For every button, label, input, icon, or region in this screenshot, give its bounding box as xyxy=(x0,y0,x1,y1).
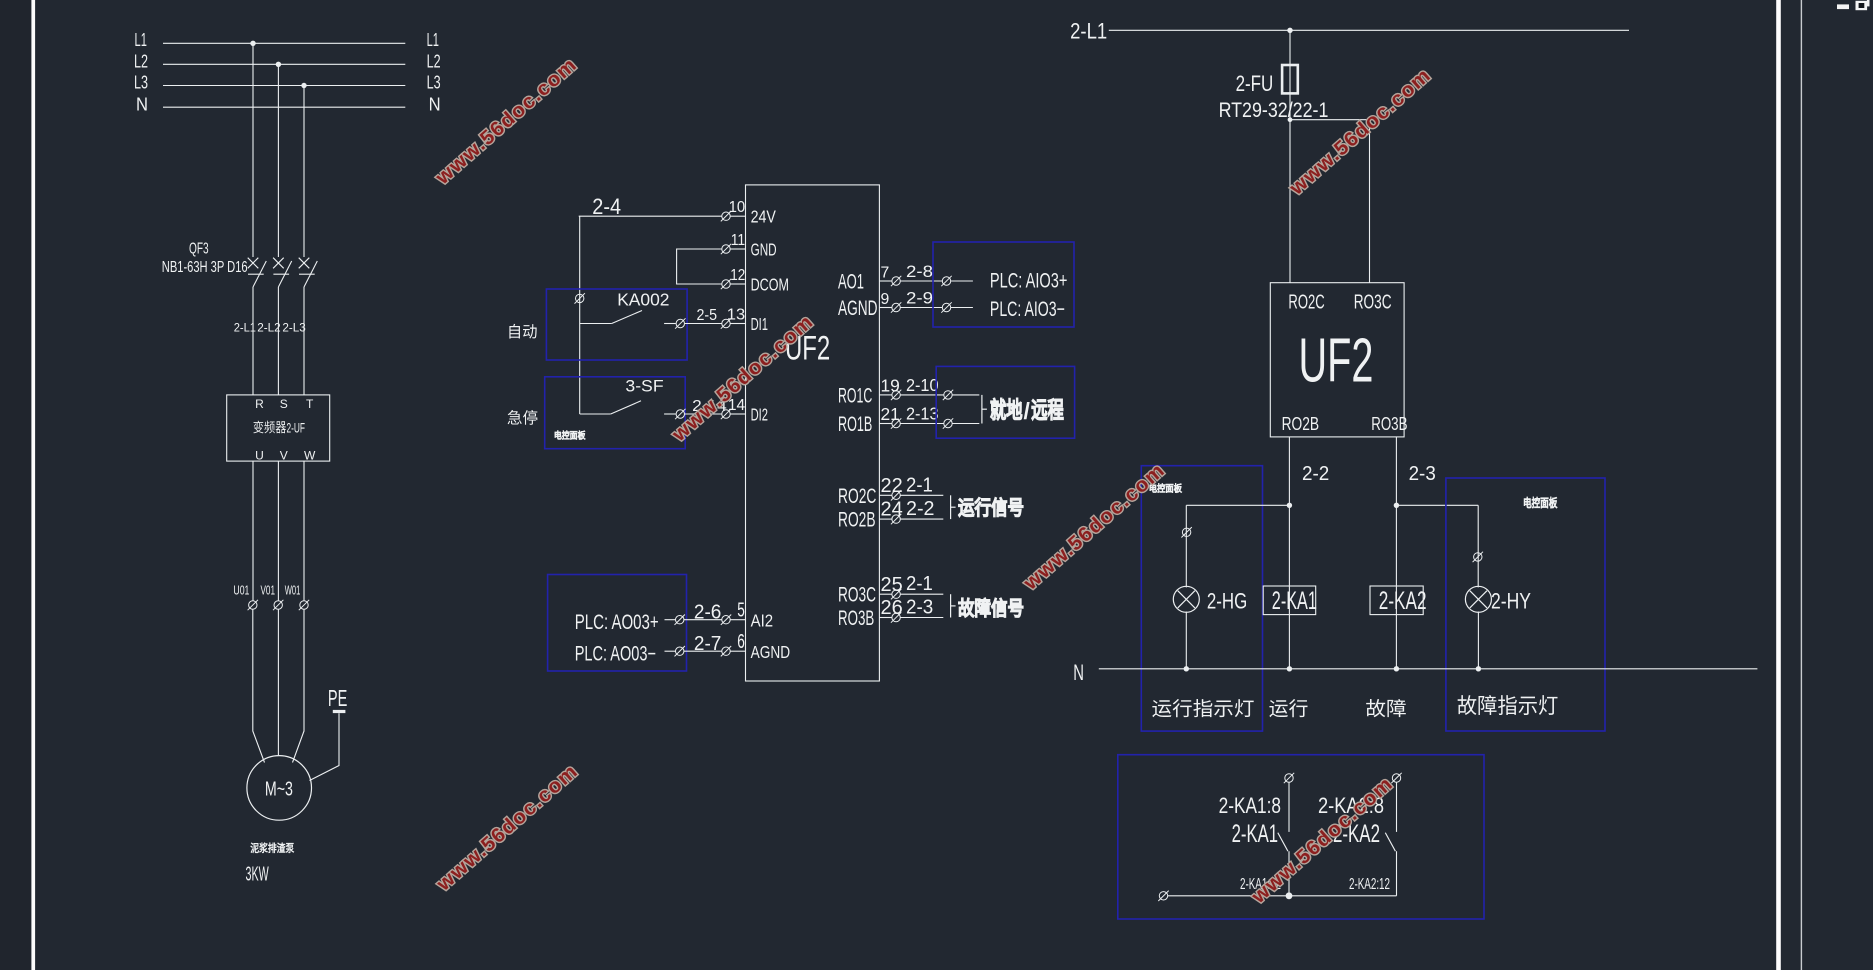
svg-text:2-UF: 2-UF xyxy=(287,421,306,437)
svg-text:L3: L3 xyxy=(427,73,441,93)
lamp 2-HG xyxy=(1173,586,1199,612)
svg-text:3-SF: 3-SF xyxy=(625,377,663,396)
svg-text:9: 9 xyxy=(881,291,890,308)
svg-text:RO2B: RO2B xyxy=(1282,413,1320,434)
pin 19 RO1C xyxy=(838,375,979,408)
breaker QF3 pole 3 xyxy=(299,258,318,395)
svg-text:RO3C: RO3C xyxy=(838,584,876,607)
inverter box 2-UF xyxy=(227,395,330,461)
terminal 2-KA1:8 xyxy=(1284,773,1294,783)
svg-text:2-KA1:8: 2-KA1:8 xyxy=(1219,793,1281,818)
svg-text:L1: L1 xyxy=(135,30,147,50)
wire W output xyxy=(303,461,305,601)
motor name 泥浆排渣泵 xyxy=(251,843,294,853)
relay contact KA002 switch xyxy=(580,311,676,324)
wire lamp 2-HG drop xyxy=(1185,505,1187,587)
svg-text:/: / xyxy=(1024,398,1031,424)
terminal lamp 2-HY xyxy=(1473,552,1483,562)
net brace 故障信号 xyxy=(951,594,956,617)
svg-text:2-HG: 2-HG xyxy=(1207,588,1247,613)
svg-text:11: 11 xyxy=(731,232,746,249)
watermark 5 xyxy=(432,760,583,896)
wire V output xyxy=(277,461,279,601)
svg-text:24V: 24V xyxy=(751,207,777,227)
svg-text:L3: L3 xyxy=(134,73,148,93)
svg-text:KA002: KA002 xyxy=(617,289,669,309)
wire AI2 xyxy=(684,619,722,621)
junction aux 2-KA1 xyxy=(1286,892,1293,899)
junction L3 tap xyxy=(301,83,306,88)
svg-text:RT29-32/22-1: RT29-32/22-1 xyxy=(1219,99,1329,122)
window minimize button xyxy=(1837,4,1849,9)
svg-text:V: V xyxy=(280,449,288,463)
svg-text:3KW: 3KW xyxy=(246,864,269,886)
wire bus 2-L1 xyxy=(1109,29,1629,31)
svg-text:L2: L2 xyxy=(427,51,441,71)
watermark 3 xyxy=(667,311,818,447)
wire bus L3 xyxy=(163,85,405,87)
label 电控面板 left xyxy=(1150,483,1182,492)
pin 14 DI2 xyxy=(721,397,768,425)
PLC analog output enclosure xyxy=(548,575,687,672)
svg-text:5: 5 xyxy=(737,600,745,622)
wire V to motor xyxy=(277,609,279,756)
pin 7 AO1 xyxy=(838,263,973,294)
svg-text:2-L1: 2-L1 xyxy=(1070,19,1107,44)
svg-text:NB1-63H 3P D16: NB1-63H 3P D16 xyxy=(162,259,248,276)
window restore button xyxy=(1856,0,1870,10)
junction N coil 2-KA2 xyxy=(1394,666,1399,671)
svg-text:N: N xyxy=(429,94,441,114)
svg-text:RO2C: RO2C xyxy=(838,485,876,508)
watermark 2 xyxy=(1285,64,1436,200)
svg-text:N: N xyxy=(136,94,148,114)
wire 2-4 feed xyxy=(579,215,722,217)
pin 13 DI1 xyxy=(721,306,768,334)
wire 2-3 column xyxy=(1395,437,1397,669)
wire U to motor xyxy=(253,609,265,762)
wire RO3C column top xyxy=(1369,120,1371,283)
motor M~3 xyxy=(247,756,312,821)
terminal W01 xyxy=(299,600,309,610)
relay coil 2-KA1 xyxy=(1263,586,1316,615)
svg-text:2-L2: 2-L2 xyxy=(257,321,281,335)
watermark 6 xyxy=(1247,773,1398,909)
svg-text:2-KA2: 2-KA2 xyxy=(1379,587,1427,615)
svg-text:2-9: 2-9 xyxy=(906,290,933,308)
svg-text:2-KA1: 2-KA1 xyxy=(1232,821,1278,848)
net brace 就地/远程 xyxy=(982,395,987,424)
pin 9 AGND analog xyxy=(838,290,973,321)
svg-text:L1: L1 xyxy=(427,30,439,50)
svg-text:RO3B: RO3B xyxy=(838,607,874,630)
indicator panel enclosure left xyxy=(1141,466,1262,731)
net brace 运行信号 xyxy=(951,495,956,519)
junction N lamp 2-HG xyxy=(1184,666,1189,671)
label 故障指示灯 xyxy=(1458,695,1558,715)
svg-text:PLC: AO03+: PLC: AO03+ xyxy=(575,611,659,634)
svg-text:UF2: UF2 xyxy=(1299,326,1374,395)
wire PE to motor xyxy=(310,713,340,780)
net label 就地/远程 xyxy=(991,398,1022,420)
svg-text:2-HY: 2-HY xyxy=(1491,588,1531,613)
junction 2-3 lamp tap xyxy=(1394,503,1399,508)
svg-text:2-L3: 2-L3 xyxy=(282,321,306,335)
svg-text:RO2B: RO2B xyxy=(838,509,876,532)
wire 2-2 column xyxy=(1288,437,1290,669)
svg-text:2-6: 2-6 xyxy=(694,602,722,624)
terminal aux common xyxy=(1158,891,1168,901)
svg-text:W01: W01 xyxy=(285,583,301,598)
wire lamp 2-HY drop xyxy=(1477,505,1479,587)
label 运行 xyxy=(1269,699,1307,717)
svg-text:2-3: 2-3 xyxy=(906,597,933,619)
svg-text:2-5: 2-5 xyxy=(697,307,718,324)
terminal U01 xyxy=(248,600,258,610)
contact 2-KA1 xyxy=(1278,782,1289,895)
svg-text:2-2: 2-2 xyxy=(906,498,935,520)
net label 运行信号 xyxy=(959,498,1023,517)
frame border right thin xyxy=(1801,0,1802,970)
svg-text:DCOM: DCOM xyxy=(751,274,789,294)
svg-text:2-KA2:12: 2-KA2:12 xyxy=(1349,876,1390,893)
svg-text:10: 10 xyxy=(729,199,746,216)
wire 2-3 to lamp 2-HY xyxy=(1396,504,1478,506)
svg-text:RO1B: RO1B xyxy=(838,413,872,436)
pin 5 AI2 xyxy=(721,600,773,631)
junction below fuse xyxy=(1288,117,1293,122)
pin 6 AGND xyxy=(721,631,790,662)
svg-text:AO1: AO1 xyxy=(838,271,864,294)
svg-text:T: T xyxy=(306,397,314,411)
auxiliary contact enclosure xyxy=(1118,755,1484,919)
label 运行指示灯 xyxy=(1152,699,1253,717)
svg-text:2-10: 2-10 xyxy=(906,375,939,395)
svg-text:N: N xyxy=(1073,660,1084,685)
switch 3-SF contact xyxy=(580,401,676,414)
junction 2-2 lamp tap xyxy=(1287,503,1292,508)
pin 21 RO1B xyxy=(838,404,979,437)
label 电控面板 panel xyxy=(555,431,585,440)
svg-text:RO1C: RO1C xyxy=(838,384,872,407)
label 电控面板 right xyxy=(1524,497,1557,508)
wire PLC to AGND xyxy=(665,650,676,652)
terminal AI2 wire start xyxy=(675,615,685,625)
svg-text:2-4: 2-4 xyxy=(592,194,621,219)
wire bus N xyxy=(163,106,405,108)
svg-text:24: 24 xyxy=(881,499,903,521)
svg-text:6: 6 xyxy=(737,631,745,653)
breaker QF3 pole 1 xyxy=(248,258,267,395)
svg-text:2-KA1: 2-KA1 xyxy=(1272,587,1317,615)
wire 2-L1 to fuse xyxy=(1289,30,1291,119)
terminal 3-SF output xyxy=(675,409,685,419)
svg-text:2-3: 2-3 xyxy=(1409,463,1436,485)
terminal on control feed xyxy=(575,293,585,303)
pin 12 DCOM xyxy=(721,267,789,295)
svg-text:V01: V01 xyxy=(261,583,276,598)
pin 25 RO3C xyxy=(838,573,943,607)
net label 故障信号 xyxy=(959,598,1023,617)
wire AGND xyxy=(684,650,722,652)
svg-text:RO3B: RO3B xyxy=(1371,413,1407,434)
lamp 2-HY xyxy=(1465,586,1491,612)
loop GND-DCOM xyxy=(677,249,722,284)
wire L1 drop to QF3 xyxy=(252,43,254,257)
svg-text:2-2: 2-2 xyxy=(1302,463,1329,485)
pin 11 GND xyxy=(721,232,777,259)
frame border left xyxy=(31,0,35,970)
svg-text:19: 19 xyxy=(881,376,900,396)
wire PLC to AI2 xyxy=(665,619,676,621)
wire L2 drop to QF3 xyxy=(277,64,279,257)
svg-text:PLC: AO03−: PLC: AO03− xyxy=(575,642,656,665)
svg-text:PLC: AIO3−: PLC: AIO3− xyxy=(990,298,1065,321)
svg-text:S: S xyxy=(280,397,288,411)
PLC analog input enclosure xyxy=(933,242,1074,327)
label 急停 xyxy=(508,410,538,425)
svg-text:M~3: M~3 xyxy=(265,779,293,801)
terminal KA002 output xyxy=(675,318,685,328)
wire RO2C column top xyxy=(1289,120,1291,283)
label 故障 xyxy=(1366,699,1406,717)
svg-text:2-1: 2-1 xyxy=(906,573,933,595)
inverter UF2 middle box xyxy=(746,185,880,681)
junction L1 tap xyxy=(250,41,255,46)
svg-text:RO3C: RO3C xyxy=(1354,292,1392,314)
wire 3-SF to DI2 xyxy=(685,413,722,415)
relay contact KA002 enclosure xyxy=(546,289,687,360)
wire bus L2 xyxy=(163,63,405,65)
watermark 4 xyxy=(1019,459,1170,595)
indicator panel enclosure right xyxy=(1446,478,1605,731)
terminal lamp 2-HG xyxy=(1181,527,1191,537)
svg-text:QF3: QF3 xyxy=(189,241,209,258)
wire KA002 to DI1 xyxy=(685,323,722,325)
pin 22 RO2C xyxy=(838,474,943,508)
wire bus L1 xyxy=(163,42,405,44)
svg-text:U01: U01 xyxy=(233,583,249,598)
pin 10 24V xyxy=(721,199,777,227)
svg-text:22: 22 xyxy=(881,475,903,497)
PE terminal bar xyxy=(333,710,346,713)
pin 26 RO3B xyxy=(838,597,943,631)
svg-text:RO2C: RO2C xyxy=(1288,292,1324,314)
left gutter xyxy=(0,0,31,970)
svg-text:AI2: AI2 xyxy=(751,610,774,630)
svg-text:13: 13 xyxy=(727,306,746,323)
svg-text:2-L1: 2-L1 xyxy=(234,321,256,335)
frame border right thick xyxy=(1776,0,1781,970)
svg-text:2-1: 2-1 xyxy=(906,474,933,496)
switch 3-SF enclosure xyxy=(545,377,686,449)
wire lamp 2-HY to N xyxy=(1477,612,1479,669)
svg-text:L2: L2 xyxy=(134,51,148,71)
wire 2-2 to lamp 2-HG xyxy=(1186,504,1289,506)
svg-text:2-8: 2-8 xyxy=(906,263,933,281)
svg-text:PLC: AIO3+: PLC: AIO3+ xyxy=(990,270,1068,293)
svg-text:12: 12 xyxy=(730,267,745,284)
junction L2 tap xyxy=(276,62,281,67)
junction 2-L1 tap xyxy=(1287,28,1292,33)
svg-text:21: 21 xyxy=(881,404,900,424)
inverter UF2 relay box xyxy=(1270,283,1404,437)
svg-text:PE: PE xyxy=(328,685,347,711)
svg-text:R: R xyxy=(255,397,264,411)
wire bus N xyxy=(1099,668,1758,670)
wire lamp 2-HG to N xyxy=(1185,612,1187,669)
wire W to motor xyxy=(293,609,305,762)
pin 24 RO2B xyxy=(838,498,943,532)
svg-text:DI2: DI2 xyxy=(751,404,768,424)
wire U output xyxy=(252,461,254,601)
net enclosure 就地/远程 xyxy=(936,366,1074,438)
wire L3 drop to QF3 xyxy=(303,86,305,258)
svg-text:2-7: 2-7 xyxy=(694,633,722,655)
breaker QF3 pole 2 xyxy=(273,258,292,395)
wire aux common xyxy=(1168,895,1397,897)
label 自动 xyxy=(509,324,536,339)
svg-text:2-13: 2-13 xyxy=(906,404,939,424)
svg-text:25: 25 xyxy=(881,574,903,596)
svg-text:7: 7 xyxy=(881,265,890,282)
relay coil 2-KA2 xyxy=(1370,586,1423,615)
junction N lamp 2-HY xyxy=(1476,666,1481,671)
junction N coil 2-KA1 xyxy=(1287,666,1292,671)
svg-text:26: 26 xyxy=(881,597,903,619)
svg-text:U: U xyxy=(255,449,264,463)
wire control feed vertical xyxy=(579,216,581,414)
svg-text:DI1: DI1 xyxy=(751,314,768,334)
terminal AGND wire start xyxy=(675,646,685,656)
watermark 1 xyxy=(431,54,582,190)
svg-text:2-FU: 2-FU xyxy=(1236,71,1274,96)
fuse 2-FU xyxy=(1282,65,1298,93)
svg-text:AGND: AGND xyxy=(838,297,878,320)
svg-text:W: W xyxy=(304,449,316,463)
svg-text:GND: GND xyxy=(751,239,777,259)
svg-text:AGND: AGND xyxy=(751,642,791,662)
terminal 2-KA2:8 xyxy=(1391,773,1401,783)
inverter name 变频器2-UF xyxy=(253,421,286,434)
contact 2-KA2 xyxy=(1385,782,1396,895)
wire fuse to RO3C column xyxy=(1290,119,1370,121)
terminal V01 xyxy=(273,600,283,610)
